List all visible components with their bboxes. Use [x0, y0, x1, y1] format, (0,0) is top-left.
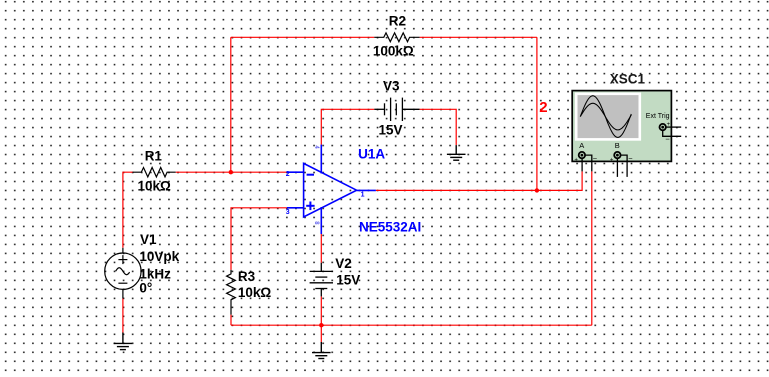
wire op-amp V- pin to V2: [320, 234, 322, 263]
junction node 1 (R1/R2/op-amp): [229, 170, 233, 174]
svg-text:+: +: [610, 157, 614, 163]
svg-text:2: 2: [539, 99, 547, 116]
scope trace small: [580, 103, 631, 130]
svg-text:+: +: [574, 157, 578, 163]
resistor R3: [227, 270, 236, 315]
oscilloscope XSC1 body: [572, 91, 671, 162]
channel B terminal: [614, 152, 620, 158]
junction output node 2: [535, 188, 539, 192]
svg-text:A: A: [579, 141, 584, 150]
svg-text:10kΩ: 10kΩ: [238, 285, 272, 300]
wire V3 left lead to op-amp V+ pin: [321, 109, 374, 144]
svg-text:NE5532AI: NE5532AI: [359, 219, 421, 234]
scope trace big: [580, 96, 631, 138]
svg-text:10kΩ: 10kΩ: [138, 178, 172, 193]
wire V1 bottom to ground: [122, 299, 124, 333]
wire op-amp output to scope channel A plus: [376, 171, 582, 190]
wire R3 bottom to bottom net: [230, 315, 232, 326]
svg-text:0°: 0°: [139, 280, 152, 295]
wire R3 top to op-amp non-inverting input: [231, 208, 287, 270]
wire V1 to R1: [123, 172, 133, 248]
svg-text:U1A: U1A: [358, 147, 385, 162]
svg-text:15V: 15V: [379, 122, 403, 137]
source V1: [105, 248, 141, 299]
battery V2: [310, 263, 333, 297]
svg-text:1kHz: 1kHz: [139, 267, 171, 282]
svg-text:15V: 15V: [336, 273, 360, 288]
svg-text:−: −: [628, 154, 633, 163]
junction bottom net at V2 ground: [319, 323, 323, 327]
svg-text:R2: R2: [389, 14, 406, 29]
svg-text:−: −: [593, 154, 598, 163]
wire top feedback horizontal left of R2: [231, 36, 374, 38]
ground for V3: [447, 145, 466, 160]
svg-text:R1: R1: [145, 148, 163, 163]
svg-text:100kΩ: 100kΩ: [373, 43, 414, 58]
svg-text:B: B: [615, 141, 620, 150]
wire bottom net horizontal: [231, 324, 592, 326]
op-amp U1A: [287, 145, 376, 234]
resistor R2: [374, 33, 419, 42]
svg-text:1: 1: [361, 191, 365, 198]
svg-text:R3: R3: [238, 269, 256, 284]
channel A terminal: [579, 152, 585, 158]
svg-text:3: 3: [286, 209, 290, 216]
battery V3: [374, 98, 419, 121]
svg-text:2: 2: [286, 171, 290, 178]
wire V3 right lead to ground: [420, 109, 457, 145]
ground for V2: [312, 342, 331, 359]
svg-text:V3: V3: [383, 78, 400, 93]
svg-text:XSC1: XSC1: [610, 72, 646, 87]
wire net 2 vertical from top wire down to output node: [536, 37, 538, 190]
svg-text:+: +: [667, 122, 671, 128]
svg-text:V2: V2: [335, 256, 352, 271]
svg-text:V1: V1: [140, 232, 157, 247]
wire scope A minus down to bottom net: [591, 171, 593, 325]
wire top feedback horizontal right of R2: [420, 36, 537, 38]
wire left vertical from top wire down to node 1: [230, 37, 232, 172]
channel B plus stub: [616, 158, 618, 177]
svg-text:Ext Trig: Ext Trig: [646, 113, 670, 120]
ext trig minus stub: [663, 130, 682, 136]
wire R1 to op-amp inverting input: [176, 171, 287, 173]
channel B minus stub: [621, 155, 628, 177]
svg-text:10Vpk: 10Vpk: [139, 249, 179, 264]
channel A minus stub: [585, 155, 592, 171]
ext trig terminal: [660, 124, 666, 130]
ground for V1: [114, 333, 133, 350]
wire V2 bottom through bottom net to ground: [320, 296, 322, 342]
ext trig plus stub: [666, 126, 681, 128]
oscilloscope screen: [576, 94, 640, 140]
svg-text:−: −: [665, 134, 670, 143]
channel A plus stub: [581, 158, 583, 171]
resistor R1: [133, 168, 176, 177]
